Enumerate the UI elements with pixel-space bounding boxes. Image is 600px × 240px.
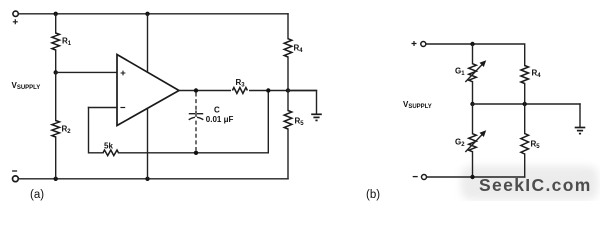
- rheostat G1: [455, 60, 486, 81]
- resistor R4: [284, 39, 303, 57]
- wire R5 upper lead: [287, 91, 289, 111]
- svg-text:(b): (b): [366, 189, 380, 201]
- wire R5 upper lead (b): [524, 104, 526, 134]
- resistor R5: [284, 111, 304, 130]
- resistor R5 (b): [521, 134, 540, 155]
- wire R4 lower lead: [287, 57, 289, 91]
- wire top rail (b): [426, 44, 524, 66]
- wire output: [179, 90, 317, 92]
- wire opamp bottom supply: [147, 108, 149, 179]
- node R4 R5: [286, 88, 290, 92]
- node middle G column: [470, 102, 474, 106]
- node G2 bottom: [470, 175, 474, 179]
- terminal + (b): [412, 41, 426, 47]
- rheostat G2: [455, 130, 486, 151]
- wire G1 lower lead: [472, 82, 474, 104]
- node output: [194, 88, 198, 92]
- svg-text:0.01 μF: 0.01 μF: [206, 115, 234, 124]
- resistor R4 (b): [521, 66, 541, 84]
- ground (a): [311, 114, 322, 120]
- wire G1 upper lead: [472, 44, 474, 64]
- wire feedback right leg: [267, 91, 269, 153]
- wire to + input: [56, 71, 117, 73]
- ground (b): [575, 128, 586, 134]
- wire ground stub (a): [288, 91, 317, 114]
- svg-text:5k: 5k: [104, 141, 113, 150]
- node noninverting input: [54, 70, 58, 74]
- wire feedback left leg: [89, 108, 104, 153]
- node top opamp supply: [145, 12, 149, 16]
- wire feedback bottom run: [119, 152, 269, 154]
- wire bottom rail (b): [427, 176, 525, 178]
- svg-text:SeekIC.com: SeekIC.com: [479, 175, 592, 195]
- node bottom R2: [54, 177, 58, 181]
- node feedback tap: [266, 88, 270, 92]
- svg-text:(a): (a): [30, 189, 44, 201]
- wire R5 column bottom: [287, 129, 289, 179]
- resistor R3: [231, 78, 249, 95]
- wire opamp top supply: [147, 14, 149, 72]
- node feedback-capacitor junction: [194, 151, 198, 155]
- wire R2 leads: [55, 72, 57, 120]
- terminal + (top left): [13, 11, 19, 24]
- wire R4 lower lead (b): [524, 84, 526, 105]
- wire bottom rail: [19, 178, 288, 180]
- capacitor C dashed lead bottom: [195, 121, 197, 151]
- wire inverting input: [89, 107, 118, 109]
- wire R5 column bottom (b): [524, 154, 526, 177]
- terminal - (bottom left): [12, 171, 18, 182]
- node middle R column: [523, 102, 527, 106]
- wire R1 leads: [55, 14, 57, 33]
- svg-text:C: C: [214, 106, 220, 115]
- wire G2 upper lead: [472, 104, 474, 134]
- node bottom opamp supply: [145, 177, 149, 181]
- op-amp U1: [117, 55, 179, 126]
- resistor R2: [52, 121, 71, 138]
- resistor R1: [52, 33, 72, 50]
- wire R4 column top: [287, 14, 289, 39]
- wire middle rail (b): [473, 103, 581, 105]
- capacitor C dashed lead top: [195, 93, 197, 112]
- node G1 top: [470, 42, 474, 46]
- terminal - (b): [413, 175, 427, 180]
- node top R1: [54, 12, 58, 16]
- capacitor C plates: [189, 106, 233, 125]
- wire top rail: [19, 13, 288, 15]
- resistor 5k: [103, 141, 119, 155]
- wire ground stub (b): [579, 104, 581, 127]
- wire G2 lower lead: [472, 152, 474, 177]
